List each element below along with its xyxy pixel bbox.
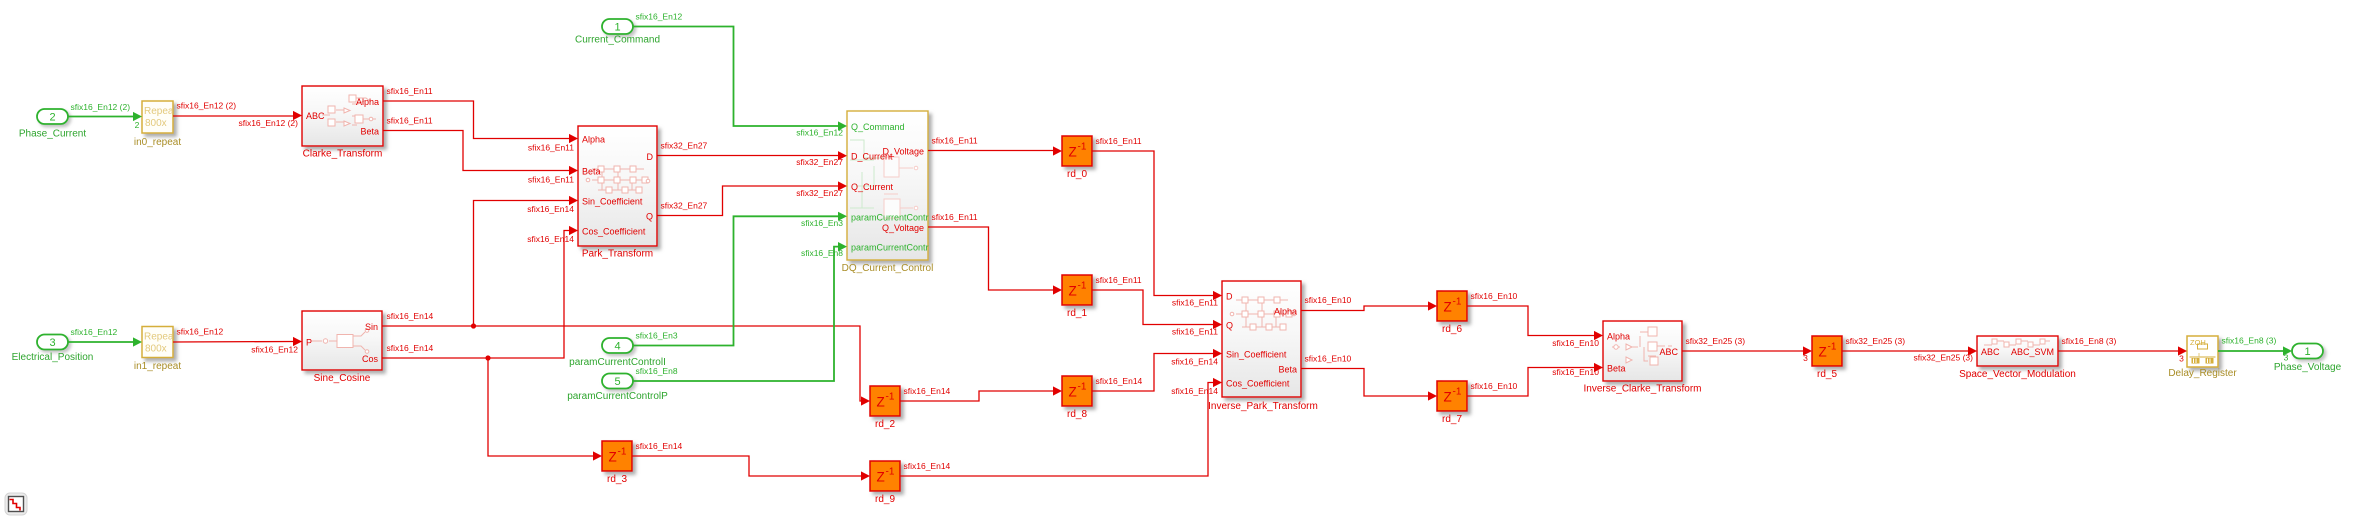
delay rd_3: [602, 441, 632, 485]
svg-text:Q: Q: [646, 212, 653, 222]
svg-text:sfix16_En14: sfix16_En14: [1171, 386, 1218, 396]
svg-text:3: 3: [2284, 353, 2289, 363]
svg-text:ABC_SVM: ABC_SVM: [2011, 347, 2054, 357]
svg-text:rd_5: rd_5: [1817, 369, 1837, 380]
wire Park D to DQ D_Current: [657, 141, 847, 168]
svg-text:sfix16_En14: sfix16_En14: [904, 386, 951, 396]
svg-text:-1: -1: [1453, 297, 1462, 308]
wire rd_5 to Space_Vector_Modulation: [1842, 336, 1977, 363]
wire Park Q to DQ Q_Current: [657, 181, 847, 215]
wire Phase_Current to in0_repeat: [68, 102, 142, 121]
svg-text:sfix16_En10: sfix16_En10: [1305, 295, 1352, 305]
svg-text:-1: -1: [886, 467, 895, 478]
svg-text:sfix16_En12: sfix16_En12: [177, 327, 224, 337]
wire rd_1 to Inverse_Park Q: [1092, 275, 1222, 337]
svg-text:Z: Z: [1819, 345, 1827, 360]
svg-text:-1: -1: [886, 392, 895, 403]
svg-text:Q_Voltage: Q_Voltage: [882, 223, 924, 233]
svg-text:sfix16_En10: sfix16_En10: [1471, 381, 1518, 391]
inport 5 paramCurrentControlP: [567, 374, 668, 403]
wire DQ D_Voltage to rd_0: [928, 136, 1062, 156]
svg-text:sfix16_En14: sfix16_En14: [904, 461, 951, 471]
svg-text:sfix16_En11: sfix16_En11: [387, 116, 433, 126]
svg-text:sfix16_En10: sfix16_En10: [1471, 291, 1518, 301]
svg-text:Alpha: Alpha: [1607, 332, 1630, 342]
svg-text:ABC: ABC: [1659, 347, 1678, 357]
svg-text:Q: Q: [1226, 321, 1233, 331]
svg-text:Clarke_Transform: Clarke_Transform: [303, 149, 383, 160]
wire in0_repeat to Clarke ABC: [173, 101, 302, 129]
svg-text:rd_2: rd_2: [875, 419, 895, 430]
svg-text:Z: Z: [1069, 284, 1077, 299]
svg-text:-1: -1: [1078, 142, 1087, 153]
wire Sine_Cosine Sin to Park Sin_Coefficient and rd_2: [382, 204, 870, 406]
svg-text:Z: Z: [877, 395, 885, 410]
wire rd_9 to Inverse_Park Cos_Coefficient: [900, 378, 1222, 476]
svg-text:sfix16_En10: sfix16_En10: [1305, 354, 1352, 364]
svg-text:Inverse_Clarke_Transform: Inverse_Clarke_Transform: [1583, 384, 1701, 395]
svg-text:sfix16_En12: sfix16_En12: [796, 128, 843, 138]
svg-text:sfix32_En27: sfix32_En27: [796, 188, 843, 198]
svg-text:Repeat: Repeat: [144, 106, 176, 117]
inport 1 Current_Command: [575, 19, 660, 46]
svg-text:sfix16_En11: sfix16_En11: [1096, 136, 1142, 146]
svg-text:800x: 800x: [145, 118, 167, 129]
svg-text:Z: Z: [1444, 390, 1452, 405]
svg-text:Sine_Cosine: Sine_Cosine: [314, 373, 371, 384]
subsystem Sine_Cosine: [302, 311, 382, 384]
wire Sine_Cosine Cos to Park Cos_Coefficient and rd_3: [382, 226, 578, 361]
svg-text:DQ_Current_Control: DQ_Current_Control: [842, 263, 934, 274]
svg-text:sfix16_En12 (2): sfix16_En12 (2): [177, 101, 237, 111]
svg-text:D: D: [647, 152, 654, 162]
svg-text:-1: -1: [618, 447, 627, 458]
svg-text:sfix32_En27: sfix32_En27: [796, 157, 843, 167]
svg-text:Beta: Beta: [1278, 365, 1297, 375]
svg-text:Z: Z: [1069, 385, 1077, 400]
svg-text:Z: Z: [877, 470, 885, 485]
inport 4 paramCurrentControlI: [569, 338, 666, 368]
wire branch Sin to Park Sin_Coefficient: [474, 196, 579, 326]
svg-text:Phase_Current: Phase_Current: [19, 129, 86, 140]
svg-text:3: 3: [2179, 354, 2184, 364]
svg-text:sfix16_En14: sfix16_En14: [527, 234, 574, 244]
svg-text:sfix16_En3: sfix16_En3: [801, 218, 843, 228]
wire Inverse_Park Alpha to rd_6: [1301, 295, 1437, 311]
wire Current_Command to DQ Q_Command: [633, 12, 847, 138]
outport 1 Phase_Voltage: [2274, 344, 2342, 374]
svg-text:rd_8: rd_8: [1067, 409, 1087, 420]
svg-text:2: 2: [135, 120, 140, 130]
delay rd_6: [1437, 291, 1467, 335]
svg-text:Delay_Register: Delay_Register: [2168, 368, 2237, 379]
delay rd_0: [1062, 136, 1092, 180]
wire paramCurrentControlP to DQ: [633, 242, 847, 381]
wire paramCurrentControlI to DQ: [633, 212, 847, 346]
svg-text:-1: -1: [1453, 387, 1462, 398]
svg-text:Space_Vector_Modulation: Space_Vector_Modulation: [1959, 369, 2076, 380]
svg-text:sfix16_En8: sfix16_En8: [801, 248, 843, 258]
svg-text:5: 5: [614, 376, 620, 388]
svg-text:D: D: [1226, 292, 1233, 302]
svg-text:sfix16_En14: sfix16_En14: [527, 204, 574, 214]
svg-text:sfix32_En25 (3): sfix32_En25 (3): [1846, 336, 1906, 346]
wire rd_2 to rd_8: [900, 386, 1062, 401]
wire Clarke Alpha to Park Alpha: [383, 86, 578, 153]
svg-text:sfix16_En14: sfix16_En14: [387, 311, 434, 321]
wire Inverse_Park Beta to rd_7: [1301, 354, 1437, 401]
svg-text:rd_3: rd_3: [607, 474, 627, 485]
delay rd_1: [1062, 275, 1092, 319]
svg-text:rd_1: rd_1: [1067, 308, 1087, 319]
svg-text:sfix32_En25 (3): sfix32_En25 (3): [1913, 353, 1973, 363]
wire rd_3 to rd_9: [632, 441, 870, 481]
svg-text:Cos: Cos: [362, 354, 379, 364]
delay rd_2: [870, 386, 900, 430]
subsystem Inverse_Clarke_Transform: [1583, 321, 1701, 395]
wire branch Cos to rd_3: [488, 358, 602, 461]
svg-text:Alpha: Alpha: [356, 97, 379, 107]
svg-text:sfix16_En3: sfix16_En3: [636, 331, 678, 341]
svg-text:Z: Z: [1069, 145, 1077, 160]
svg-text:ABC: ABC: [306, 111, 325, 121]
svg-text:Cos_Coefficient: Cos_Coefficient: [582, 227, 646, 237]
svg-text:in0_repeat: in0_repeat: [134, 137, 181, 148]
subsystem Space_Vector_Modulation: [1959, 336, 2076, 380]
svg-text:Repeat: Repeat: [144, 332, 176, 343]
subsystem DQ_Current_Control: [842, 111, 934, 274]
svg-text:sfix32_En27: sfix32_En27: [661, 141, 708, 151]
svg-text:sfix16_En12: sfix16_En12: [636, 12, 683, 22]
wire Inverse_Clarke ABC to rd_5: [1682, 336, 1812, 363]
svg-text:sfix16_En12: sfix16_En12: [71, 327, 118, 337]
wire rd_0 to Inverse_Park D: [1092, 136, 1222, 308]
svg-text:sfix16_En11: sfix16_En11: [387, 86, 433, 96]
wire Electrical_Position to in1_repeat: [68, 327, 142, 347]
svg-text:3: 3: [1803, 353, 1808, 363]
svg-text:Q_Command: Q_Command: [851, 122, 905, 132]
inport 2 Phase_Current: [19, 109, 86, 140]
svg-text:sfix16_En12: sfix16_En12: [251, 345, 298, 355]
svg-text:sfix16_En14: sfix16_En14: [387, 343, 434, 353]
svg-text:Current_Command: Current_Command: [575, 35, 660, 46]
delay rd_8: [1062, 376, 1092, 420]
wire rd_6 to Inverse_Clarke Alpha: [1467, 291, 1603, 348]
svg-text:Sin: Sin: [365, 322, 378, 332]
block Delay_Register (ZOH): [2168, 336, 2237, 379]
svg-text:-1: -1: [1078, 281, 1087, 292]
svg-text:rd_0: rd_0: [1067, 169, 1087, 180]
svg-text:sfix16_En8 (3): sfix16_En8 (3): [2222, 336, 2277, 346]
svg-text:sfix32_En25 (3): sfix32_En25 (3): [1686, 336, 1746, 346]
svg-text:sfix16_En11: sfix16_En11: [1172, 298, 1218, 308]
delay rd_7: [1437, 381, 1467, 425]
svg-text:in1_repeat: in1_repeat: [134, 361, 181, 372]
svg-text:sfix16_En8 (3): sfix16_En8 (3): [2062, 336, 2117, 346]
svg-text:P: P: [306, 338, 312, 348]
svg-text:sfix16_En12 (2): sfix16_En12 (2): [238, 118, 298, 128]
block in1_repeat (Repeat 800x): [134, 327, 181, 373]
delay rd_9: [870, 461, 900, 505]
svg-text:2: 2: [49, 112, 55, 124]
svg-text:1: 1: [2304, 346, 2310, 358]
svg-text:Q_Current: Q_Current: [851, 182, 894, 192]
svg-text:sfix16_En10: sfix16_En10: [1552, 338, 1599, 348]
svg-text:sfix16_En12 (2): sfix16_En12 (2): [71, 102, 131, 112]
svg-text:Inverse_Park_Transform: Inverse_Park_Transform: [1208, 401, 1318, 412]
UI hide/show button (bottom-left corner): [5, 493, 27, 515]
svg-text:800x: 800x: [145, 344, 167, 355]
svg-text:Sin_Coefficient: Sin_Coefficient: [582, 197, 643, 207]
wire rd_7 to Inverse_Clarke Beta: [1467, 363, 1603, 396]
svg-text:sfix16_En14: sfix16_En14: [1096, 376, 1143, 386]
wire in1_repeat to Sine_Cosine P: [173, 327, 302, 355]
svg-text:ABC: ABC: [1981, 347, 2000, 357]
wire rd_8 to Inverse_Park Sin_Coefficient: [1092, 349, 1222, 391]
svg-text:Electrical_Position: Electrical_Position: [12, 352, 94, 363]
subsystem Inverse_Park_Transform: [1208, 281, 1318, 412]
svg-text:Beta: Beta: [582, 167, 601, 177]
svg-text:sfix16_En11: sfix16_En11: [1172, 327, 1218, 337]
wire DQ Q_Voltage to rd_1: [928, 212, 1062, 295]
svg-text:Alpha: Alpha: [582, 135, 605, 145]
svg-text:Cos_Coefficient: Cos_Coefficient: [1226, 379, 1290, 389]
subsystem Park_Transform: [578, 126, 657, 260]
svg-text:1: 1: [614, 22, 620, 34]
svg-text:4: 4: [614, 341, 620, 353]
svg-text:Phase_Voltage: Phase_Voltage: [2274, 362, 2342, 373]
svg-text:-1: -1: [1078, 382, 1087, 393]
svg-text:Z: Z: [1444, 300, 1452, 315]
delay rd_5: [1812, 336, 1842, 380]
svg-text:paramCurrentControlP: paramCurrentControlP: [567, 391, 668, 402]
svg-text:3: 3: [49, 337, 55, 349]
inport 3 Electrical_Position: [12, 335, 94, 364]
svg-text:Alpha: Alpha: [1274, 307, 1297, 317]
svg-text:Park_Transform: Park_Transform: [582, 249, 653, 260]
svg-text:paramCurrentContr: paramCurrentContr: [851, 212, 929, 222]
svg-text:sfix16_En11: sfix16_En11: [528, 143, 574, 153]
svg-text:sfix32_En27: sfix32_En27: [661, 201, 708, 211]
svg-text:rd_7: rd_7: [1442, 414, 1462, 425]
wire Delay_Register to Phase_Voltage: [2218, 336, 2292, 363]
svg-text:sfix16_En14: sfix16_En14: [636, 441, 683, 451]
svg-text:sfix16_En11: sfix16_En11: [528, 175, 574, 185]
svg-text:rd_9: rd_9: [875, 494, 895, 505]
svg-text:-1: -1: [1828, 342, 1837, 353]
svg-text:Beta: Beta: [1607, 364, 1626, 374]
svg-text:sfix16_En11: sfix16_En11: [932, 136, 978, 146]
svg-text:Z: Z: [609, 450, 617, 465]
svg-text:Beta: Beta: [360, 127, 379, 137]
svg-text:paramCurrentContr: paramCurrentContr: [851, 243, 929, 253]
svg-text:sfix16_En11: sfix16_En11: [1096, 275, 1142, 285]
wire Space_Vector_Modulation to Delay_Register: [2058, 336, 2187, 364]
svg-text:sfix16_En10: sfix16_En10: [1552, 367, 1599, 377]
wire Clarke Beta to Park Beta: [383, 116, 578, 185]
svg-text:D_Voltage: D_Voltage: [882, 147, 924, 157]
svg-text:sfix16_En8: sfix16_En8: [636, 366, 678, 376]
block in0_repeat (Repeat 800x): [134, 101, 181, 148]
svg-text:sfix16_En14: sfix16_En14: [1171, 357, 1218, 367]
svg-text:sfix16_En11: sfix16_En11: [932, 212, 978, 222]
subsystem Clarke_Transform: [302, 86, 383, 160]
svg-text:Sin_Coefficient: Sin_Coefficient: [1226, 350, 1287, 360]
svg-text:rd_6: rd_6: [1442, 324, 1462, 335]
